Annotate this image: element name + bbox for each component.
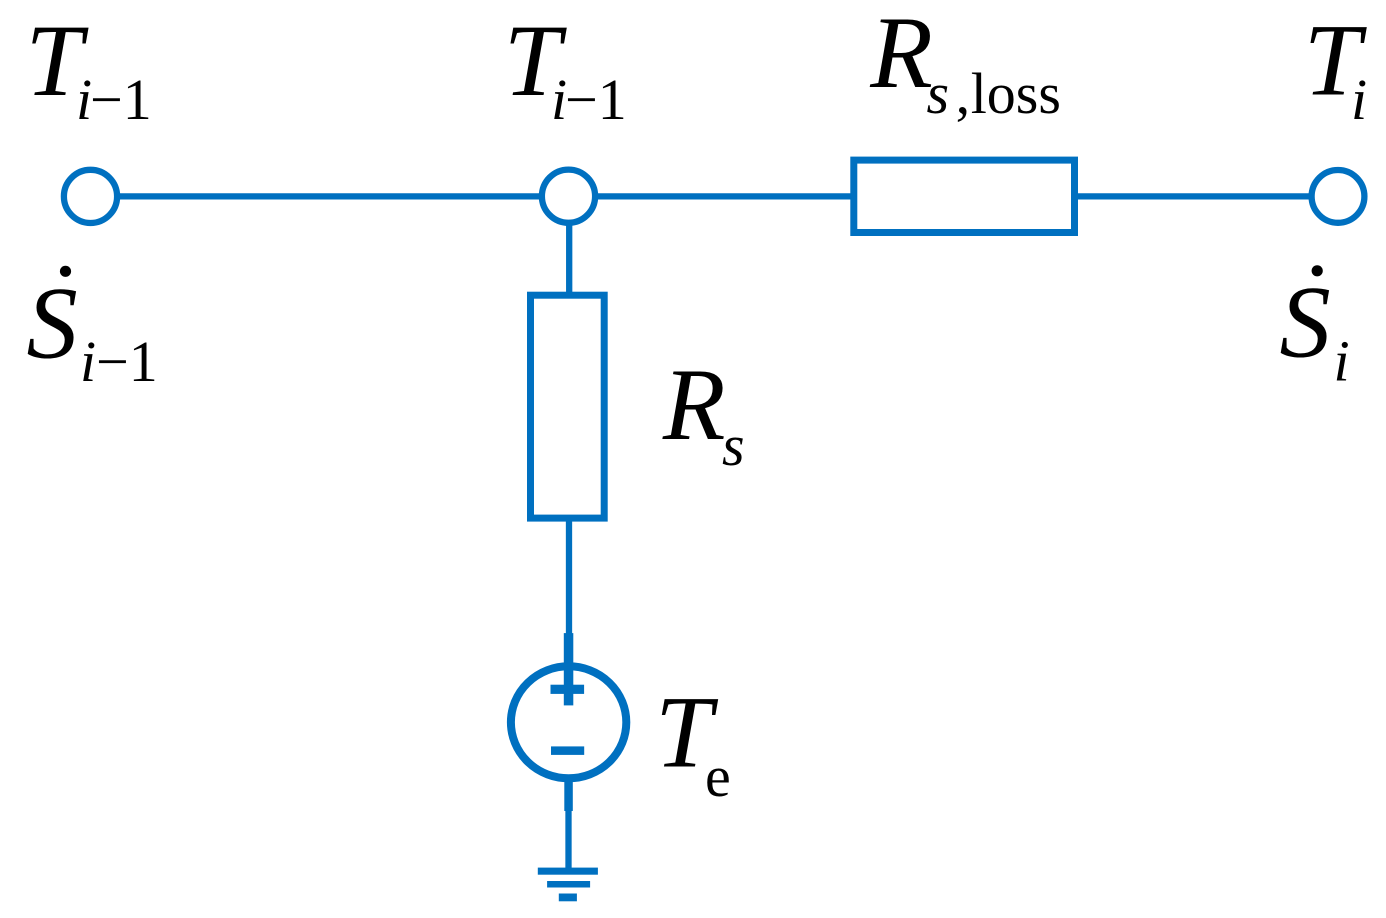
svg-text:loss: loss xyxy=(971,61,1061,126)
svg-text:e: e xyxy=(705,744,731,809)
wire (resistor Rs,loss to right terminal) xyxy=(1078,193,1310,199)
wire (source to ground) xyxy=(565,810,571,868)
wire (left terminal to junction) xyxy=(119,193,540,199)
wire (bottom lead of source, thick) xyxy=(564,778,573,811)
wire (top lead of source, thick) xyxy=(564,633,574,705)
svg-text:s: s xyxy=(927,61,950,126)
label R_s xyxy=(662,349,745,478)
resistor Rs,loss xyxy=(854,160,1075,232)
svg-text:R: R xyxy=(869,0,933,110)
svg-text:S: S xyxy=(1280,267,1331,380)
svg-text:s: s xyxy=(722,413,745,478)
terminal node T_i (right) xyxy=(1312,170,1365,223)
label R_s,loss xyxy=(869,0,1061,126)
label T_i-1 (left terminal) xyxy=(26,5,152,132)
resistor Rs xyxy=(531,295,605,518)
svg-text:−1: −1 xyxy=(90,67,152,132)
svg-text:R: R xyxy=(662,349,726,462)
node T_i-1 (junction) xyxy=(542,170,595,223)
svg-text:i: i xyxy=(1334,329,1350,394)
terminal node T_i-1 (left) xyxy=(64,170,117,223)
source circle xyxy=(511,666,626,778)
wire (junction to resistor Rs,loss) xyxy=(597,193,854,199)
label T_i (right terminal) xyxy=(1304,4,1368,132)
ground xyxy=(538,868,598,902)
minus sign xyxy=(551,746,584,755)
wire (junction down to resistor Rs) xyxy=(566,222,572,296)
label S-dot_i (right) xyxy=(1280,265,1350,393)
label T_e xyxy=(655,677,731,809)
svg-text:i: i xyxy=(1351,67,1367,132)
label T_i-1 (junction) xyxy=(504,5,627,132)
svg-text:i: i xyxy=(80,329,96,394)
svg-text:−1: −1 xyxy=(565,67,627,132)
svg-text:S: S xyxy=(27,267,78,380)
plus sign xyxy=(551,685,585,694)
svg-text:−1: −1 xyxy=(96,329,158,394)
voltage source T_e xyxy=(511,633,626,811)
label S-dot_i-1 (left) xyxy=(27,266,158,394)
wire (resistor Rs down to source) xyxy=(566,518,572,634)
svg-text:,: , xyxy=(956,61,971,126)
